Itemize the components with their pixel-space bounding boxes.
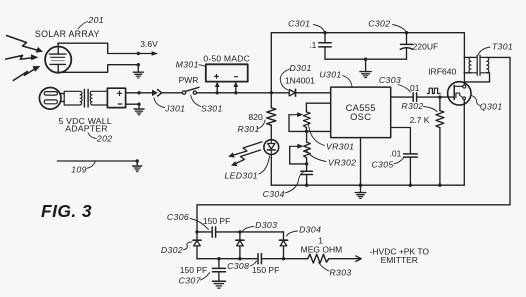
wire U301 ground pin xyxy=(360,138,362,186)
wire U301 output pin xyxy=(391,96,413,98)
label J301 xyxy=(154,98,185,114)
svg-text:.1: .1 xyxy=(309,40,316,50)
switch S301 xyxy=(182,87,199,94)
svg-text:D301: D301 xyxy=(290,63,312,73)
wire adapter negative output xyxy=(126,103,138,105)
ground (adapter) xyxy=(134,104,144,115)
svg-text:D304: D304 xyxy=(299,225,321,235)
HV output arrow xyxy=(329,256,362,262)
node U301 ground on rail xyxy=(359,184,362,187)
svg-text:LED301: LED301 xyxy=(224,170,258,180)
svg-text:820: 820 xyxy=(248,112,263,122)
capacitor C307 xyxy=(212,259,225,281)
svg-text:.01: .01 xyxy=(408,83,420,93)
label R303 xyxy=(319,263,352,278)
svg-text:OSC: OSC xyxy=(350,111,371,122)
potentiometer VR302 xyxy=(290,131,311,164)
label M301 xyxy=(176,59,207,69)
transformer (wall adapter) primary winding xyxy=(64,91,82,105)
wire 109 xyxy=(57,160,135,162)
label S301 xyxy=(191,95,223,113)
waveform square wave symbol xyxy=(427,88,440,93)
wire multiplier lower line xyxy=(197,258,258,260)
meter arrow terminal + xyxy=(215,82,220,95)
ground (solar) xyxy=(133,65,143,78)
label VR301 xyxy=(309,124,355,152)
transformer (wall adapter) secondary winding xyxy=(90,91,107,105)
wire solar positive output xyxy=(58,43,137,53)
svg-text:ADAPTER: ADAPTER xyxy=(65,124,107,134)
node multiplier input xyxy=(195,230,198,233)
LED light ray 1 xyxy=(228,142,262,158)
label C301 xyxy=(288,19,324,31)
IC U301 CA555 box xyxy=(331,87,391,138)
LED light ray 2 xyxy=(231,150,261,166)
svg-text:C302: C302 xyxy=(368,19,390,29)
svg-text:D302: D302 xyxy=(161,245,183,255)
node D304 bottom xyxy=(282,257,285,260)
wire S301 to D301 xyxy=(197,92,290,94)
potentiometer VR301 xyxy=(289,103,331,131)
LED301 xyxy=(264,140,279,155)
label C306 xyxy=(167,212,209,229)
node 109 end xyxy=(136,159,139,162)
svg-text:202: 202 xyxy=(96,134,113,144)
label Q301 xyxy=(472,96,503,112)
capacitor C303 xyxy=(413,93,454,102)
node VR302 bottom xyxy=(305,162,308,165)
svg-text:PWR: PWR xyxy=(179,75,199,85)
light ray arrow 1 xyxy=(7,36,44,53)
reference 201 xyxy=(78,15,104,29)
svg-text:VR301: VR301 xyxy=(326,142,354,152)
svg-text:3.6V: 3.6V xyxy=(140,39,158,49)
resistor R301 xyxy=(267,93,276,140)
node adapter negative end xyxy=(137,103,140,106)
node C302 top xyxy=(405,31,408,34)
svg-text:109: 109 xyxy=(71,165,87,175)
solar array cell 201 xyxy=(45,43,71,72)
svg-text:U301: U301 xyxy=(319,70,341,80)
node C304 bottom xyxy=(305,184,308,187)
wire LED to bottom rail xyxy=(270,155,272,186)
transformer T301 primary winding xyxy=(464,57,476,72)
node R302 bottom xyxy=(438,184,441,187)
svg-text:Q301: Q301 xyxy=(480,101,503,111)
svg-text:M301: M301 xyxy=(176,59,199,69)
svg-text:T301: T301 xyxy=(492,41,513,51)
wire junction to top rail xyxy=(271,33,464,93)
label VR302 xyxy=(306,150,356,168)
svg-text:201: 201 xyxy=(87,15,104,25)
wire capacitor bottoms xyxy=(325,58,407,60)
transformer (wall adapter) core xyxy=(84,89,88,107)
svg-text:FIG. 3: FIG. 3 xyxy=(41,201,92,221)
svg-text:R302: R302 xyxy=(401,101,423,111)
meter M301 box xyxy=(206,64,248,81)
svg-text:C304: C304 xyxy=(263,189,285,199)
svg-text:C308: C308 xyxy=(227,261,249,271)
label D304 xyxy=(287,225,322,237)
label C303 xyxy=(379,75,411,92)
ground (U301) xyxy=(355,185,365,198)
label 1 MEG OHM xyxy=(301,236,343,255)
svg-text:.01: .01 xyxy=(389,148,401,158)
svg-text:MEG OHM: MEG OHM xyxy=(301,245,343,255)
svg-text:2.7 K: 2.7 K xyxy=(410,115,430,125)
wire J301 to S301 xyxy=(162,92,182,94)
node solar positive tap xyxy=(137,52,140,55)
capacitor C306 xyxy=(197,227,284,237)
diode D304 xyxy=(280,232,288,259)
diode D303 xyxy=(236,232,244,259)
node D303 top xyxy=(238,230,241,233)
label D303 xyxy=(243,220,278,231)
node gate junction xyxy=(438,95,441,98)
wire T301 secondary to HV loop xyxy=(197,57,510,232)
wire Q301 source to bottom rail xyxy=(463,100,465,185)
diode D301 xyxy=(289,89,331,96)
label R301 xyxy=(238,120,266,134)
svg-text:IRF640: IRF640 xyxy=(428,67,456,77)
wire T301 primary to Q301 drain xyxy=(463,57,465,72)
svg-text:R303: R303 xyxy=(329,268,351,278)
label LED301 xyxy=(224,156,269,180)
wire U301 pin to C305 xyxy=(391,128,411,154)
label C308 xyxy=(227,261,256,271)
3.6V arrow xyxy=(140,51,158,56)
wire solar negative output xyxy=(58,65,137,73)
label R302 xyxy=(401,101,437,112)
label D301 xyxy=(280,63,311,90)
ground (C307) xyxy=(212,281,225,288)
transformer T301 secondary winding xyxy=(464,57,510,82)
label 5 VDC WALL ADAPTER xyxy=(59,116,112,133)
svg-text:S301: S301 xyxy=(201,103,223,113)
reference 202 xyxy=(88,133,112,144)
svg-text:220UF: 220UF xyxy=(413,42,439,52)
transistor Q301 MOSFET xyxy=(448,82,471,105)
svg-text:C303: C303 xyxy=(379,75,401,85)
resistor R302 xyxy=(436,97,444,185)
node C305 bottom xyxy=(409,184,412,187)
label C304 xyxy=(263,172,303,199)
node C301 top xyxy=(323,31,326,34)
node main junction (R301 / top rail) xyxy=(270,91,273,94)
svg-text:VR302: VR302 xyxy=(328,157,356,167)
label C302 xyxy=(368,19,405,31)
svg-text:150 PF: 150 PF xyxy=(180,265,207,275)
svg-text:SOLAR ARRAY: SOLAR ARRAY xyxy=(35,29,100,39)
capacitor C302 (polarized) xyxy=(400,33,412,60)
svg-text:J301: J301 xyxy=(164,104,185,114)
label D302 xyxy=(161,242,192,255)
node adapter output xyxy=(137,91,140,94)
svg-text:EMITTER: EMITTER xyxy=(381,255,418,265)
light ray arrow 3 xyxy=(13,66,40,81)
svg-text:150 PF: 150 PF xyxy=(203,216,230,226)
svg-text:C307: C307 xyxy=(179,276,202,286)
capacitor C305 xyxy=(404,154,418,185)
light ray arrow 2 xyxy=(6,54,39,60)
svg-text:0-50 MADC: 0-50 MADC xyxy=(203,53,250,63)
svg-text:C301: C301 xyxy=(288,19,310,29)
label 109 xyxy=(71,161,95,174)
ground (109) xyxy=(133,161,142,172)
svg-text:1N4001: 1N4001 xyxy=(285,76,315,86)
svg-text:R301: R301 xyxy=(238,124,260,134)
svg-text:D303: D303 xyxy=(255,220,277,230)
rectifier box of adapter with + - xyxy=(107,88,125,107)
label U301 xyxy=(319,70,352,87)
node VR301 bottom xyxy=(305,130,308,133)
wire adapter positive output xyxy=(126,92,152,94)
svg-text:C306: C306 xyxy=(167,212,189,222)
resistor R303 xyxy=(308,254,329,263)
wall plug (adapter input) xyxy=(39,88,64,110)
bottom rail xyxy=(271,184,464,186)
node D303 bottom xyxy=(238,257,241,260)
diode D302 xyxy=(193,232,201,259)
meter arrow terminal - xyxy=(233,82,238,95)
connector J301 xyxy=(152,90,162,96)
label -HVDC +PK TO EMITTER xyxy=(370,247,430,265)
node ground tap xyxy=(364,58,367,61)
transformer T301 core xyxy=(477,55,480,75)
svg-text:150 PF: 150 PF xyxy=(252,265,279,275)
label T301 xyxy=(478,41,513,55)
capacitor C301 xyxy=(319,33,331,60)
capacitor C308 xyxy=(258,254,308,264)
ground (top mid) xyxy=(360,59,371,77)
node solar negative end xyxy=(137,63,140,66)
svg-text:C305: C305 xyxy=(371,160,393,170)
capacitor C304 xyxy=(301,164,313,185)
node C307 tap xyxy=(217,257,220,260)
label C307 xyxy=(179,273,210,286)
label C305 xyxy=(371,158,403,170)
